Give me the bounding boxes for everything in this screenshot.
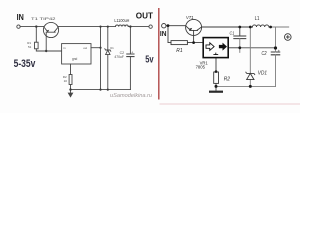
junction dots left xyxy=(35,25,131,90)
junction rail-C1 tap xyxy=(238,26,241,29)
junction rail-R1 tap xyxy=(35,25,37,27)
diode VD1 line xyxy=(249,27,251,86)
svg-text:5v: 5v xyxy=(145,54,154,65)
capacitor C1 line xyxy=(239,27,241,36)
node OUT terminal circle xyxy=(149,25,152,28)
svg-text:L1: L1 xyxy=(255,16,260,22)
resistor R1 leads xyxy=(36,27,61,51)
svg-text:470uF: 470uF xyxy=(114,55,124,59)
svg-text:IN: IN xyxy=(160,29,167,38)
junction bottom rail ground right xyxy=(215,85,218,88)
wire collector rail xyxy=(202,26,253,28)
inductor L1 coil xyxy=(116,25,129,27)
resistor R2 body right xyxy=(214,72,219,83)
capacitor C2 line right xyxy=(275,27,277,86)
regulator VR1 box xyxy=(203,38,228,58)
junction VT1 base xyxy=(192,41,195,44)
red frame bottom border xyxy=(160,103,301,105)
wire regulator out to C2 top xyxy=(240,47,276,49)
junction out pin C1 xyxy=(238,46,241,49)
svg-text:R1: R1 xyxy=(176,48,183,54)
diode D1 zener xyxy=(105,49,111,51)
svg-text:51: 51 xyxy=(28,45,32,49)
wire L1 to plus terminal xyxy=(269,26,289,28)
wire IN down to R1 xyxy=(168,26,171,43)
svg-text:D1: D1 xyxy=(110,46,114,50)
wire vertical with diode D1 x=107 xyxy=(107,27,109,90)
diode VD1 zener symbol xyxy=(246,72,255,80)
junction bottom rail node B xyxy=(107,89,109,91)
node IN terminal circle xyxy=(17,25,20,28)
capacitor C1 plates xyxy=(234,36,246,39)
junction rail node A xyxy=(99,26,101,28)
svg-text:gnd: gnd xyxy=(72,57,78,61)
plus terminal symbol xyxy=(285,34,292,41)
resistor R1 body right xyxy=(171,41,187,45)
junction out wire C2 top xyxy=(274,46,277,49)
wire terminal to emitter xyxy=(166,25,186,27)
svg-text:VT1: VT1 xyxy=(186,15,194,21)
ground mark inside VR1 xyxy=(213,53,218,55)
transistor T1 circle xyxy=(43,22,58,37)
transistor VT1 circle xyxy=(186,19,202,35)
junction regulator out pin xyxy=(99,47,101,49)
capacitor C1 line lower xyxy=(239,39,241,53)
transistor VT1 base lead xyxy=(193,30,195,42)
svg-text:R2: R2 xyxy=(224,77,231,83)
junction bottom rail ground xyxy=(69,88,71,90)
wire top rail from transistor collector to OUT xyxy=(59,26,149,28)
wire top rail from IN to transistor emitter xyxy=(20,26,43,28)
svg-text:10: 10 xyxy=(64,79,68,83)
transistor VT1 internals xyxy=(186,26,202,31)
capacitor C2 plates right xyxy=(271,52,279,55)
node IN terminal right xyxy=(162,24,166,28)
svg-text:C2: C2 xyxy=(262,51,267,57)
ground symbol right (bar) xyxy=(215,86,217,90)
ground symbol left xyxy=(70,90,72,93)
transistor T1 emitter arrow xyxy=(47,30,50,32)
junction rail-L1 right xyxy=(269,26,272,29)
arrow outline inside VR1 xyxy=(206,43,214,51)
junction bottom rail VD1 xyxy=(249,85,252,88)
resistor R2 body xyxy=(69,75,72,85)
svg-text:5-35v: 5-35v xyxy=(14,58,36,70)
inductor L1 coil right xyxy=(252,25,268,27)
transistor T1 base lead xyxy=(45,32,47,51)
ground arrow left xyxy=(68,93,74,98)
junction dots right xyxy=(167,24,278,88)
svg-text:C1: C1 xyxy=(230,31,235,36)
red frame left border xyxy=(158,8,160,100)
svg-text:7805: 7805 xyxy=(196,64,206,69)
svg-text:out: out xyxy=(83,46,87,50)
svg-text:OUT: OUT xyxy=(136,10,154,20)
regulator ground pin wire xyxy=(70,64,72,90)
capacitor C2 plates xyxy=(127,54,134,57)
wire R1 to regulator xyxy=(187,42,203,44)
junction base-R1 wire xyxy=(45,50,47,52)
transistor T1 internals xyxy=(44,27,59,33)
resistor R1 body xyxy=(35,42,39,49)
junction rail-VD1 tap xyxy=(249,26,252,29)
wire regulator out pin xyxy=(228,47,240,49)
arrow solid inside VR1 xyxy=(219,43,227,51)
wire bottom rail xyxy=(71,89,131,91)
svg-text:L1100uH: L1100uH xyxy=(114,18,129,23)
svg-text:IN: IN xyxy=(17,13,24,22)
junction IN terminal xyxy=(167,24,170,27)
svg-text:VD1: VD1 xyxy=(258,70,267,76)
svg-text:uSamodelkina.ru: uSamodelkina.ru xyxy=(110,93,152,99)
regulator box U1 xyxy=(62,44,91,64)
wire vertical node A x=101.5 xyxy=(100,27,102,90)
junction R2 top xyxy=(215,70,218,73)
transistor VT1 emitter arrow xyxy=(189,28,192,31)
junction rail-C2 tap xyxy=(129,25,131,27)
junction rail node B xyxy=(107,26,109,28)
wire regulator gnd pin xyxy=(215,58,217,87)
junction bottom rail node A xyxy=(99,89,101,91)
capacitor C2 line xyxy=(129,27,131,90)
svg-text:T1 TIP42: T1 TIP42 xyxy=(31,16,57,21)
wire bottom rail right xyxy=(216,85,276,87)
svg-text:+: + xyxy=(131,50,133,54)
regulator output pin wire xyxy=(91,47,101,49)
